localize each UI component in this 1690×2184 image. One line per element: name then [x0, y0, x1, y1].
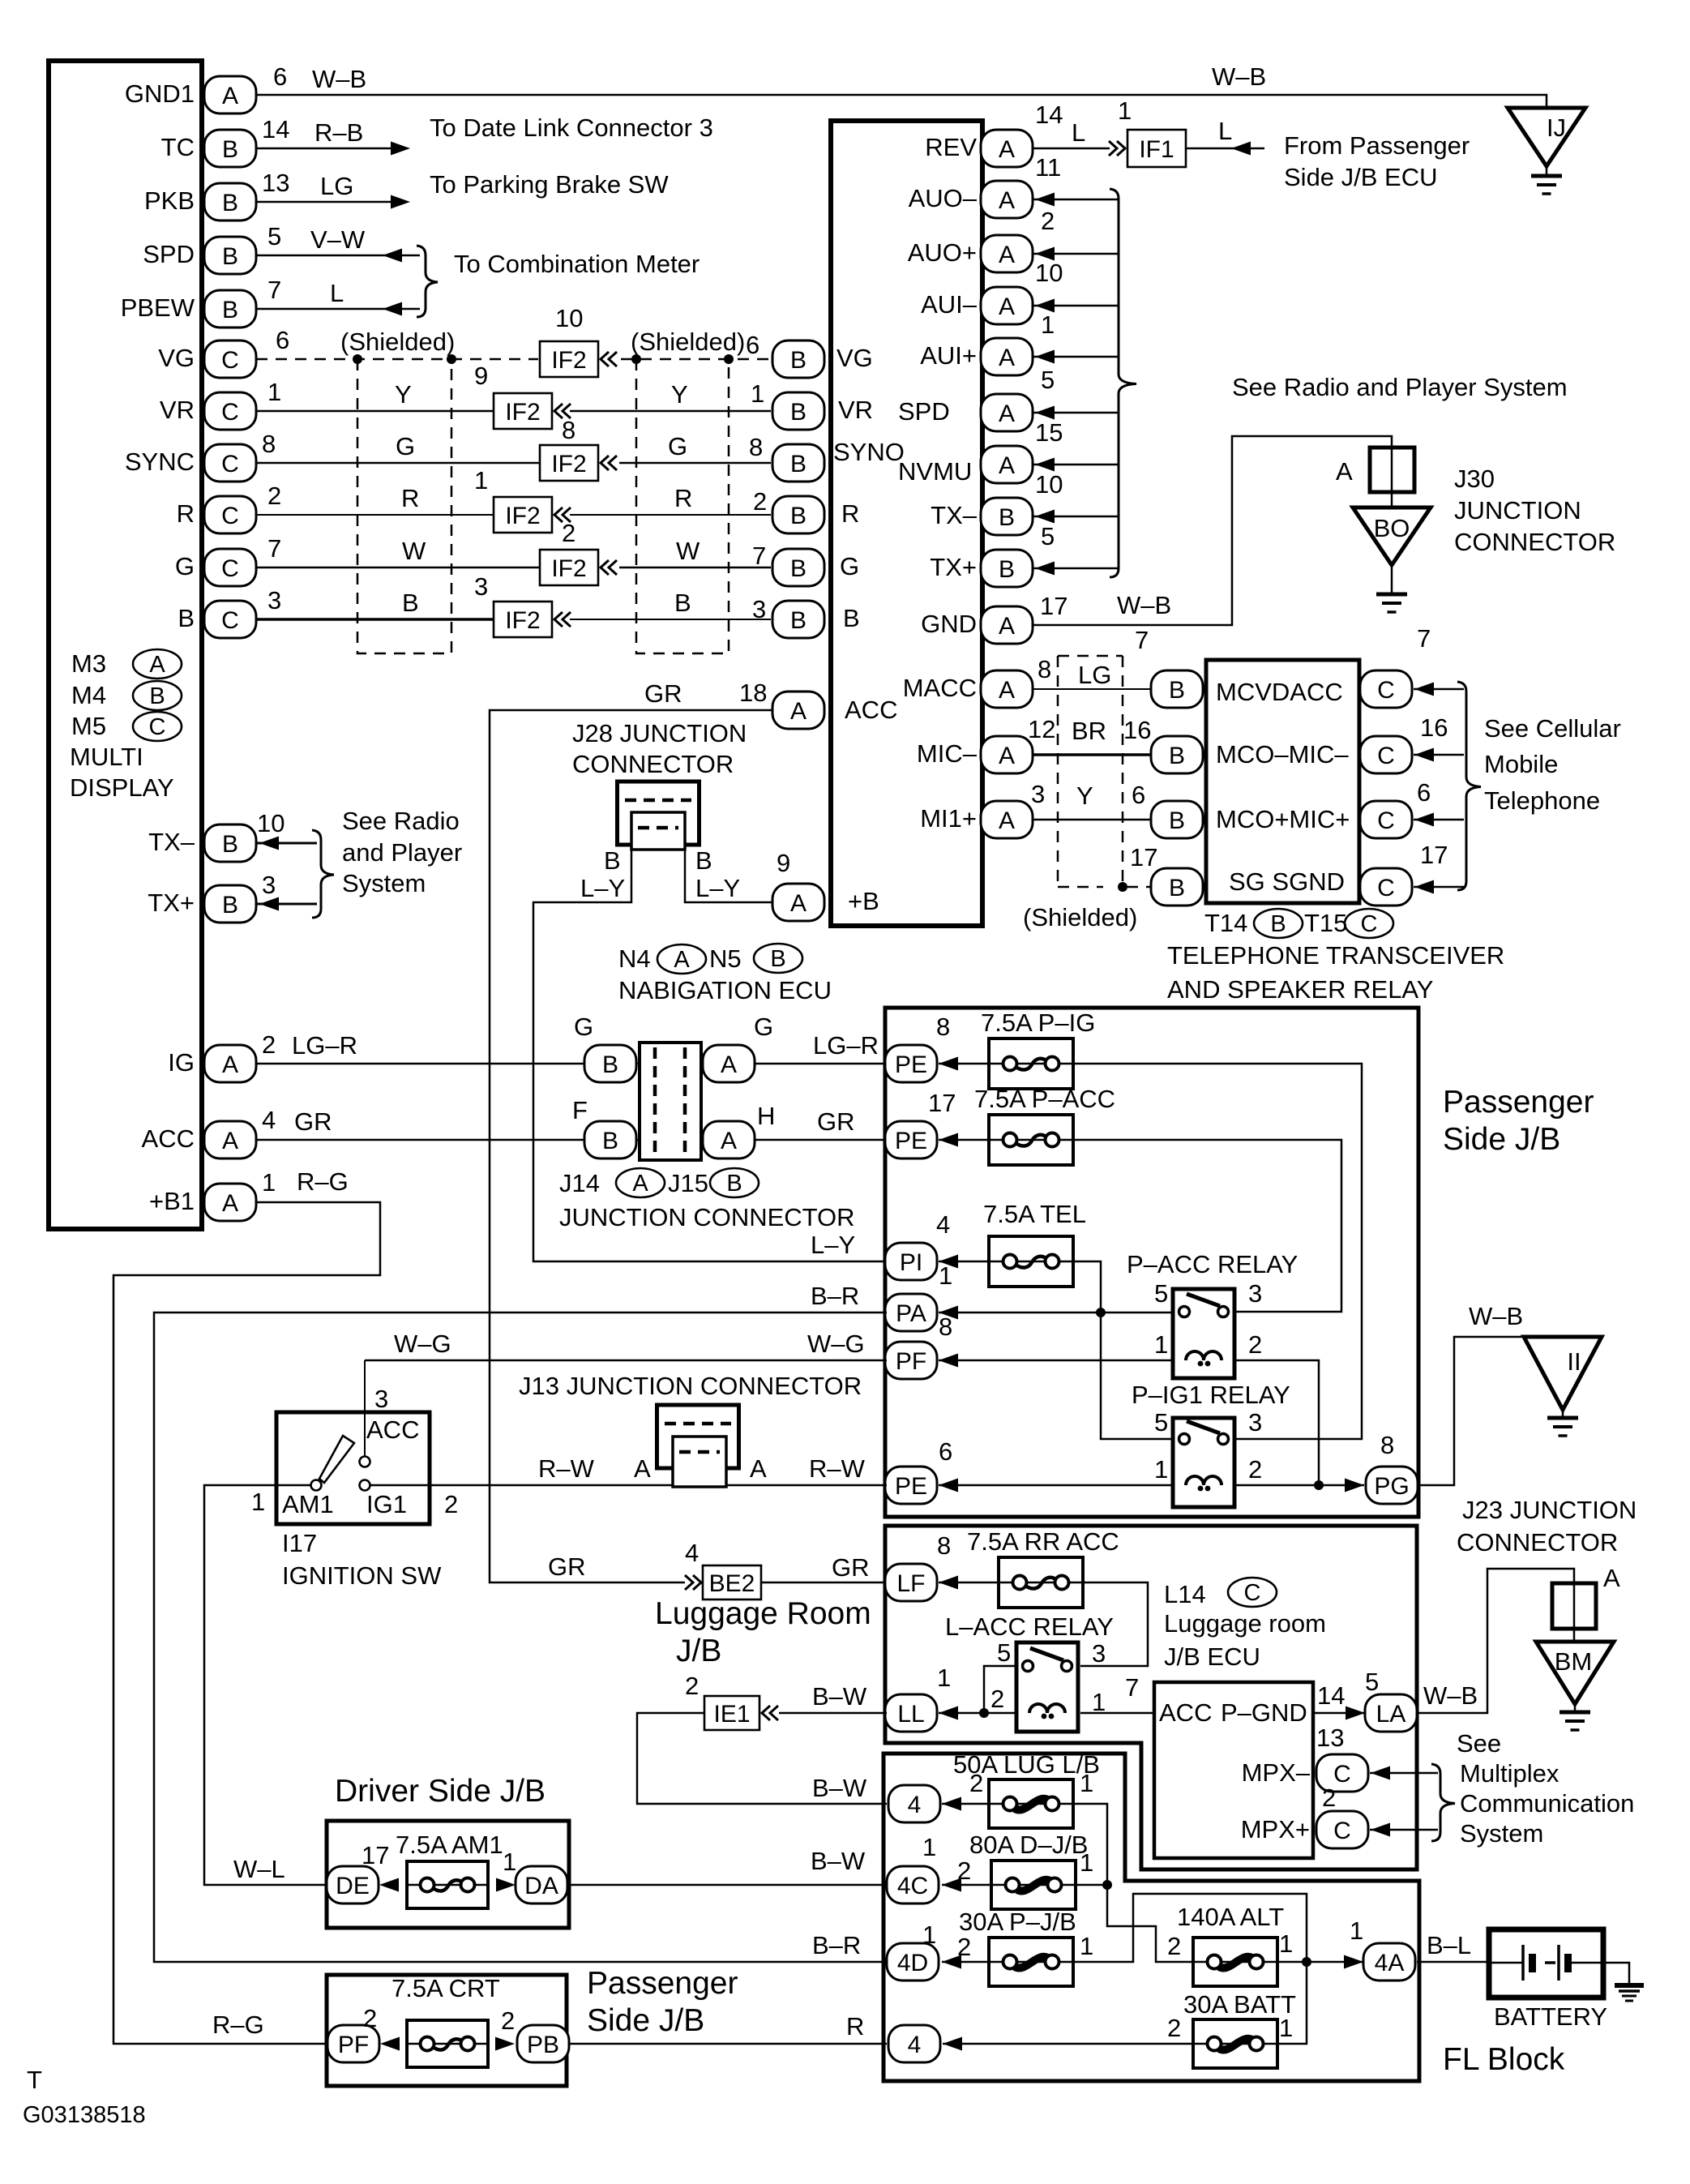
svg-text:7: 7 [1135, 626, 1149, 654]
junction dot at LL wire [979, 1708, 989, 1718]
junction IF2 at row y=443 [540, 304, 617, 377]
pin TX+ of multi display [204, 885, 256, 923]
svg-text:TX–: TX– [148, 828, 195, 856]
wire from AUI- pin to radio system brace [1033, 299, 1118, 313]
wire from 80A fuse to 4C with arrow [942, 1878, 991, 1892]
ground IJ symbol [1531, 166, 1562, 194]
connector N4 ellipse [657, 944, 706, 974]
pin +B9 of navigation ECU (left) [772, 884, 824, 921]
pin TX+ of navigation ECU (right) [981, 550, 1033, 587]
svg-text:2: 2 [267, 482, 281, 510]
wire to TX- pin (see radio) [256, 837, 317, 850]
svg-text:3: 3 [474, 572, 488, 601]
svg-text:B: B [770, 946, 785, 972]
svg-text:B: B [790, 451, 806, 477]
svg-text:BATTERY: BATTERY [1494, 2002, 1607, 2031]
svg-text:B: B [602, 1128, 618, 1154]
svg-text:1: 1 [922, 1833, 936, 1861]
wire from 50A fuse down to 80A junction [1073, 1804, 1107, 1885]
fuse 30A BATT [1183, 1990, 1296, 2068]
relay P-IG1 RELAY [1132, 1381, 1290, 1507]
labels J30 JUNCTION CONNECTOR [1454, 465, 1615, 556]
pin numbers 1 / 2 / 1 at 30A P-J/B fuse [922, 1921, 1093, 1961]
svg-text:TX–: TX– [931, 501, 978, 529]
wire from battery to ground [1603, 1963, 1629, 1984]
svg-text:W–B: W–B [1469, 1302, 1523, 1330]
pin numbers VR..B left side [262, 378, 281, 615]
svg-text:R–W: R–W [538, 1454, 595, 1483]
svg-text:B: B [843, 604, 860, 632]
wire W-B from GND pin to J30 junction connector [1033, 436, 1392, 625]
junction IF1 box [1127, 130, 1186, 167]
svg-text:8: 8 [562, 416, 575, 444]
svg-text:B: B [1169, 743, 1185, 769]
labels L14 Luggage room J/B ECU [1164, 1580, 1326, 1671]
svg-text:PE: PE [895, 1051, 927, 1078]
pin AUO+ of navigation ECU (right) [981, 235, 1033, 272]
svg-text:6: 6 [276, 326, 289, 354]
svg-text:2: 2 [1167, 1932, 1181, 1960]
pin +B1 of multi display [204, 1184, 256, 1221]
labels 4 / GR left [262, 1106, 332, 1136]
svg-text:LG–R: LG–R [813, 1031, 879, 1060]
svg-text:C: C [1377, 677, 1395, 704]
svg-text:2: 2 [444, 1490, 458, 1518]
pin ACC18 of navigation ECU (left) [772, 692, 824, 729]
svg-text:BE2: BE2 [709, 1570, 755, 1597]
svg-text:Y: Y [395, 380, 412, 409]
pin 4A of FL block [1363, 1943, 1415, 1981]
pin PE17 of passenger side J/B [885, 1121, 937, 1158]
svg-text:IF2: IF2 [551, 555, 586, 582]
svg-text:NABIGATION ECU: NABIGATION ECU [618, 976, 832, 1004]
wire B-W from LL to IE1 [779, 1712, 887, 1715]
svg-text:II: II [1567, 1347, 1581, 1376]
battery box [1489, 1929, 1603, 1998]
wire from P-ACC relay pin2 down to PG [1236, 1360, 1319, 1485]
svg-text:5: 5 [1154, 1279, 1168, 1308]
junction dot TEL/PA [1096, 1308, 1106, 1317]
svg-text:B–R: B–R [811, 1282, 859, 1310]
svg-text:C: C [1361, 911, 1378, 937]
svg-text:2: 2 [685, 1672, 699, 1700]
svg-text:BM: BM [1555, 1647, 1593, 1676]
svg-text:M5: M5 [71, 712, 106, 740]
junction IF2 at row y=571 [540, 416, 617, 481]
svg-text:2: 2 [969, 1769, 983, 1797]
svg-text:L: L [1218, 117, 1232, 145]
svg-text:2: 2 [1248, 1330, 1262, 1359]
pin numbers 13 / 2 for MPX pins [1316, 1724, 1344, 1812]
svg-text:Passenger: Passenger [1443, 1085, 1594, 1120]
pin numbers 5 3 2 1 of L-ACC relay [990, 1638, 1106, 1716]
svg-text:B: B [790, 503, 806, 529]
labels 2 / B-W at IE1 [685, 1672, 867, 1711]
junction connector J30 square [1370, 448, 1414, 492]
pin B of J14 (G) [584, 1045, 636, 1082]
pin numbers 2 / 1 at 30A BATT fuse [1167, 2014, 1293, 2042]
svg-text:2: 2 [1248, 1455, 1262, 1484]
wire R-B from TC to Data Link Connector [256, 142, 410, 156]
svg-text:B: B [790, 555, 806, 582]
svg-text:7.5A P–IG: 7.5A P–IG [981, 1008, 1095, 1037]
svg-text:2: 2 [1167, 2014, 1181, 2042]
wire from RR ACC fuse to LF with arrow [939, 1576, 999, 1590]
svg-text:7: 7 [752, 542, 766, 570]
svg-text:T15: T15 [1304, 909, 1347, 937]
svg-text:W–G: W–G [807, 1330, 865, 1358]
svg-text:MCO+MIC+: MCO+MIC+ [1216, 805, 1350, 833]
ground BO triangle [1353, 507, 1431, 565]
svg-text:A: A [790, 698, 806, 725]
pin PI4 of passenger side J/B [885, 1243, 937, 1280]
big brace to radio and player system [1110, 189, 1136, 577]
svg-text:1: 1 [1080, 1848, 1093, 1877]
svg-text:P–ACC RELAY: P–ACC RELAY [1127, 1250, 1298, 1278]
pin G of navigation ECU (left) [772, 549, 824, 586]
pin numbers 8 / 1 / 14 / 5 [937, 1531, 1379, 1710]
svg-text:VG: VG [836, 344, 873, 372]
pin LF of luggage room J/B [885, 1564, 937, 1601]
wire R-W from IG1 through J13 to PE6 [370, 1484, 887, 1487]
passenger side J/B block [885, 1008, 1418, 1517]
svg-text:7.5A AM1: 7.5A AM1 [396, 1831, 503, 1859]
junction IF2 at row y=635 [474, 466, 571, 533]
pin numbers 1 / 2 / 1 at 80A fuse [922, 1833, 1093, 1885]
dashed shield wire VG row [256, 358, 771, 361]
shield junction dots on VG wire [353, 354, 734, 364]
svg-text:R–G: R–G [212, 2011, 264, 2039]
svg-text:I17: I17 [282, 1529, 317, 1557]
svg-text:A: A [721, 1051, 737, 1078]
svg-text:1: 1 [939, 1261, 952, 1290]
svg-text:A: A [790, 890, 806, 917]
svg-text:2: 2 [990, 1685, 1004, 1713]
connector T14 ellipse [1254, 909, 1303, 938]
svg-text:7.5A CRT: 7.5A CRT [391, 1974, 500, 2002]
svg-text:J/B: J/B [676, 1634, 721, 1668]
svg-text:M3: M3 [71, 649, 106, 678]
svg-text:ACC: ACC [366, 1415, 419, 1444]
wire R-G from +B1 down to CRT fuse PF [113, 1202, 380, 2044]
pin REV of navigation ECU (right) [981, 130, 1033, 167]
telephone shield dashed box [1058, 656, 1123, 887]
multi display block M3/M4/M5 [49, 61, 202, 1229]
fuse 7.5A CRT [391, 1974, 500, 2067]
svg-text:PKB: PKB [144, 186, 195, 215]
wire LG from MACC to transceiver [1033, 688, 1153, 690]
svg-text:LG: LG [320, 172, 353, 200]
svg-text:4: 4 [908, 2032, 922, 2058]
relay L-ACC RELAY [945, 1612, 1114, 1732]
svg-text:B: B [674, 589, 691, 617]
pin B of transceiver (MCO+MIC+ left) [1151, 801, 1203, 838]
svg-text:B: B [1169, 807, 1185, 834]
wire Y from MI1+ to transceiver [1033, 819, 1153, 821]
svg-text:17: 17 [1420, 841, 1448, 869]
battery cell symbol [1489, 1945, 1603, 1981]
svg-text:8: 8 [1038, 655, 1051, 683]
svg-text:9: 9 [777, 849, 790, 877]
ignition switch ACC terminal [360, 1457, 370, 1467]
svg-text:GND1: GND1 [125, 79, 195, 108]
junction connector J14/J15 symbol [640, 1043, 701, 1160]
svg-text:ACC: ACC [1159, 1698, 1212, 1727]
label See Multiplex Communication System [1457, 1729, 1634, 1848]
svg-text:L: L [330, 279, 344, 307]
svg-text:14: 14 [1035, 101, 1063, 129]
svg-text:3: 3 [374, 1385, 388, 1413]
junction BE2 box [703, 1565, 761, 1599]
svg-text:GR: GR [294, 1107, 332, 1136]
wire L from IF1 to passenger side JB ECU [1186, 142, 1264, 156]
svg-text:SYNO: SYNO [833, 438, 905, 466]
svg-text:B: B [790, 347, 806, 374]
label Passenger Side J/B bottom [587, 1966, 738, 2038]
svg-text:3: 3 [752, 595, 766, 623]
wire B-R from PA to P-ACC relay pin 5 [939, 1306, 1173, 1320]
svg-text:3: 3 [1092, 1639, 1106, 1668]
arrows DE and DA at AM1 fuse [379, 1878, 516, 1892]
svg-text:FL Block: FL Block [1443, 2042, 1565, 2077]
svg-text:+B: +B [848, 887, 879, 915]
svg-text:R–B: R–B [314, 118, 363, 147]
svg-text:(Shielded): (Shielded) [1023, 903, 1137, 931]
wire L from REV to IF1 [1033, 141, 1125, 156]
svg-text:Driver Side J/B: Driver Side J/B [335, 1774, 546, 1809]
wire GR from BE2 to LF [761, 1582, 887, 1584]
svg-text:1: 1 [1154, 1455, 1168, 1484]
svg-text:4: 4 [936, 1210, 950, 1239]
pin R of navigation ECU (left) [772, 496, 824, 533]
svg-text:BO: BO [1374, 514, 1410, 542]
svg-text:CONNECTOR: CONNECTOR [1457, 1528, 1618, 1557]
svg-text:B: B [726, 1171, 742, 1197]
svg-text:7.5A TEL: 7.5A TEL [983, 1200, 1086, 1228]
svg-text:PF: PF [896, 1348, 926, 1375]
pin numbers 2 / 1 at 50A fuse [969, 1769, 1093, 1797]
junction IF2 at row y=764 [474, 572, 571, 637]
svg-text:80A D–J/B: 80A D–J/B [969, 1831, 1088, 1859]
transceiver internal labels [1216, 678, 1350, 896]
svg-text:B–W: B–W [812, 1682, 867, 1711]
svg-text:J13 JUNCTION CONNECTOR: J13 JUNCTION CONNECTOR [519, 1372, 862, 1400]
svg-text:BR: BR [1072, 717, 1106, 745]
svg-text:Mobile: Mobile [1484, 750, 1558, 778]
pin AUI- of navigation ECU (right) [981, 287, 1033, 324]
svg-text:ACC: ACC [845, 696, 897, 724]
wire from P-ACC fuse to PE17 with arrow [939, 1133, 989, 1147]
wire B between B pins [256, 618, 771, 621]
svg-text:See Radio: See Radio [342, 807, 460, 835]
svg-text:B: B [604, 846, 621, 875]
svg-text:IGNITION SW: IGNITION SW [282, 1561, 442, 1590]
svg-text:17: 17 [928, 1089, 956, 1117]
svg-text:A: A [1336, 457, 1353, 486]
svg-text:2: 2 [957, 1933, 971, 1961]
svg-text:15: 15 [1035, 418, 1063, 447]
pin B of transceiver (MCVDACC left) [1151, 670, 1203, 708]
svg-text:8: 8 [939, 1313, 952, 1341]
svg-text:MPX+: MPX+ [1241, 1815, 1310, 1844]
connector M4 ellipse [133, 681, 182, 710]
FL block (notched) [884, 1754, 1419, 2081]
wire W-G from PF to P-ACC relay coil [939, 1354, 1173, 1368]
wire B-W from DA to 4C [567, 1884, 887, 1886]
pin 4 (30A BATT) of FL block [888, 2025, 940, 2062]
svg-text:A: A [999, 400, 1015, 427]
svg-text:B: B [222, 892, 238, 919]
svg-text:C: C [1333, 1761, 1351, 1788]
svg-text:2: 2 [363, 2004, 377, 2032]
pin B of transceiver (MCO-MIC- left) [1151, 736, 1203, 773]
wire G between SYNC pins [256, 462, 771, 465]
svg-text:A: A [999, 807, 1015, 834]
svg-text:1: 1 [1118, 96, 1132, 125]
pin B of navigation ECU (left) [772, 601, 824, 638]
svg-text:13: 13 [262, 169, 289, 197]
wire from 30A fuse to 4D with arrow [942, 1955, 989, 1969]
svg-text:W: W [676, 537, 700, 565]
svg-text:B: B [1270, 911, 1286, 937]
pin C of transceiver (SG SGND right) [1360, 868, 1412, 906]
wire R-W from PE6 to P-IG1 relay coil [939, 1479, 1173, 1492]
pin MI1+ of navigation ECU (right) [981, 801, 1033, 838]
svg-text:B: B [790, 399, 806, 426]
svg-text:GR: GR [644, 679, 682, 708]
junction connector J23 square [1552, 1583, 1596, 1629]
svg-text:1: 1 [267, 378, 281, 406]
wire W-G from ignition ACC to PF [365, 1360, 887, 1362]
svg-text:TC: TC [161, 133, 195, 161]
svg-text:B: B [222, 190, 238, 216]
pin SYNC of multi display [204, 444, 256, 482]
svg-text:R: R [401, 484, 419, 512]
svg-text:Passenger: Passenger [587, 1966, 738, 2001]
svg-text:B: B [149, 683, 165, 709]
pin C of transceiver (MCO-MIC- right) [1360, 736, 1412, 773]
labels M3 M4 M5 MULTI DISPLAY [70, 649, 174, 802]
wire L from PBEW to combination meter [256, 302, 420, 316]
pin ACC of multi display [204, 1121, 256, 1158]
svg-text:7: 7 [1125, 1673, 1139, 1702]
svg-text:A: A [222, 1128, 238, 1154]
svg-text:T: T [27, 2066, 42, 2094]
svg-text:and Player: and Player [342, 838, 462, 867]
wire W-L from AM1 to DE of driver side J/B [204, 1485, 327, 1885]
svg-text:A: A [750, 1454, 767, 1483]
pin AUO- of navigation ECU (right) [981, 181, 1033, 218]
svg-text:DISPLAY: DISPLAY [70, 773, 174, 802]
svg-text:IG1: IG1 [366, 1490, 407, 1518]
pin GND1 of multi display [204, 76, 256, 113]
svg-text:C: C [221, 451, 239, 477]
wire from TEL fuse down to P-IG1 relay pin 5 [1073, 1261, 1173, 1439]
pin numbers PE8/PE17/PI4/PA1/PF8/PE6/PG8 [928, 1013, 1394, 1466]
ground symbol below II [1547, 1410, 1578, 1436]
svg-text:MPX–: MPX– [1242, 1758, 1311, 1787]
wire B-W from IE1 down to 4 pin of FL block [637, 1713, 887, 1804]
wire from SPD pin to radio system brace [1033, 406, 1118, 420]
wire W between G pins [256, 567, 771, 569]
svg-text:(Shielded): (Shielded) [631, 328, 745, 356]
svg-text:G: G [574, 1013, 593, 1041]
svg-text:2: 2 [1322, 1784, 1336, 1812]
svg-text:4C: 4C [897, 1873, 928, 1899]
svg-text:B: B [602, 1051, 618, 1078]
pin A of J15 (G) [703, 1045, 755, 1082]
svg-text:W–L: W–L [233, 1855, 285, 1883]
svg-text:B: B [222, 136, 238, 163]
junction connector J13 symbol [657, 1405, 739, 1487]
svg-text:T14: T14 [1204, 909, 1247, 937]
svg-text:PI: PI [900, 1249, 922, 1276]
pin 4 (50A) of FL block [888, 1785, 940, 1822]
pin PG of passenger side J/B [1366, 1467, 1418, 1504]
svg-text:A: A [632, 1171, 648, 1197]
svg-text:18: 18 [739, 679, 767, 707]
svg-text:LF: LF [896, 1570, 925, 1597]
svg-text:3: 3 [1248, 1408, 1262, 1437]
svg-text:W–B: W–B [312, 65, 366, 93]
svg-text:6: 6 [273, 62, 287, 91]
wires from cellular telephone into C pins [1414, 683, 1464, 894]
fuse 7.5A AM1 [396, 1831, 503, 1908]
pin PKB of multi display [204, 183, 256, 221]
svg-text:To Parking Brake SW: To Parking Brake SW [430, 170, 669, 199]
labels 7 / L [267, 276, 344, 307]
navigation ECU internal labels right column [903, 133, 978, 833]
svg-text:GR: GR [817, 1107, 855, 1136]
svg-text:N5: N5 [709, 944, 742, 973]
pin MACC of navigation ECU (right) [981, 670, 1033, 708]
pin numbers on transceiver right side [1417, 624, 1448, 869]
svg-text:B–W: B–W [811, 1847, 866, 1875]
wire GR from ACC pin to J14 [256, 1139, 887, 1141]
svg-text:140A ALT: 140A ALT [1177, 1903, 1284, 1931]
svg-text:B: B [222, 297, 238, 323]
pin DA of driver side J/B [516, 1866, 567, 1904]
svg-text:W–G: W–G [394, 1330, 451, 1358]
wire L-Y from J28 left down to PI pin [533, 850, 887, 1261]
svg-text:Y: Y [671, 380, 688, 409]
svg-text:SG SGND: SG SGND [1229, 867, 1345, 896]
pin VG of navigation ECU (left) [772, 340, 824, 378]
svg-text:W–B: W–B [1117, 591, 1171, 619]
pin C MPX+ of luggage ECU [1316, 1811, 1368, 1848]
ground BM triangle [1536, 1642, 1614, 1704]
svg-text:10: 10 [555, 304, 583, 332]
fuse 7.5A P-IG [981, 1008, 1095, 1089]
luggage room J/B ECU box [1154, 1682, 1313, 1858]
svg-text:A: A [634, 1454, 651, 1483]
svg-text:1: 1 [1279, 1929, 1293, 1958]
svg-text:NVMU: NVMU [898, 457, 972, 486]
svg-text:C: C [1244, 1580, 1261, 1606]
svg-text:4D: 4D [897, 1950, 928, 1976]
svg-text:PE: PE [895, 1128, 927, 1154]
svg-text:H: H [757, 1102, 775, 1130]
svg-text:A: A [999, 677, 1015, 704]
wires from multiplex system into MPX pins [1370, 1766, 1438, 1837]
svg-text:2: 2 [262, 1030, 276, 1059]
svg-text:PE: PE [895, 1473, 927, 1500]
svg-text:MACC: MACC [903, 674, 977, 702]
pin VR of multi display [204, 392, 256, 430]
svg-text:Communication: Communication [1460, 1789, 1634, 1818]
pin GND of navigation ECU (right) [981, 606, 1033, 644]
wire from battery node down to 30A BATT fuse [1277, 1962, 1307, 2044]
